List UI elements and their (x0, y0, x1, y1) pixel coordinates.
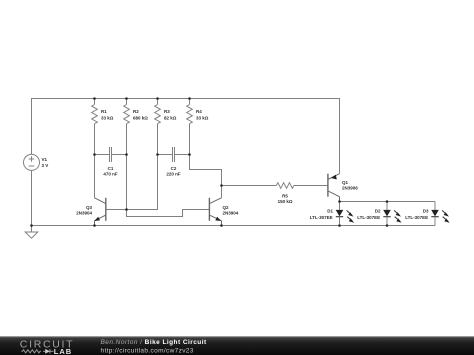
svg-text:LTL-307EE: LTL-307EE (310, 215, 333, 220)
svg-text:Q3: Q3 (86, 205, 93, 210)
junction node D2 cathode (386, 224, 389, 227)
junction node C2 right / R4 (188, 153, 191, 156)
svg-text:C2: C2 (171, 166, 177, 171)
wire top rail (32, 99, 340, 174)
svg-text:150 kΩ: 150 kΩ (278, 199, 293, 204)
svg-text:R3: R3 (164, 109, 170, 114)
junction node D2 anode (386, 200, 389, 203)
svg-text:D1: D1 (327, 209, 333, 214)
svg-text:Q1: Q1 (342, 180, 349, 185)
LED D2 (383, 202, 401, 226)
junction node R1 top rail (93, 97, 96, 100)
svg-text:R5: R5 (282, 193, 288, 198)
junction node Q2 collector / R5 (220, 184, 223, 187)
junction node R4 top rail (188, 97, 191, 100)
LED D1 (336, 202, 354, 226)
ground (25, 226, 38, 239)
svg-text:D3: D3 (423, 209, 429, 214)
svg-text:33 kΩ: 33 kΩ (101, 116, 114, 121)
svg-text:470 nF: 470 nF (103, 172, 118, 177)
junction node Q3 emitter (93, 224, 96, 227)
svg-text:3 V: 3 V (42, 163, 49, 168)
logo zigzag (21, 349, 53, 354)
resistor R4 (187, 99, 193, 155)
svg-text:Ben.Norton / Bike Light Circui: Ben.Norton / Bike Light Circuit (101, 339, 207, 346)
wire R1 node to Q3 collector (94, 155, 96, 198)
svg-text:220 nF: 220 nF (166, 172, 181, 177)
junction node D1 anode / Q1 collector (338, 200, 341, 203)
svg-text:82 kΩ: 82 kΩ (164, 116, 177, 121)
junction node C2 left / R3 (156, 153, 159, 156)
capacitor C1 (95, 147, 127, 162)
transistor Q2 (209, 198, 221, 226)
svg-text:33 kΩ: 33 kΩ (196, 116, 209, 121)
resistor R5 (276, 183, 328, 189)
svg-text:http://circuitlab.com/cw7zv23: http://circuitlab.com/cw7zv23 (101, 347, 194, 354)
wire bottom rail (32, 225, 436, 227)
junction node C1 right / R2 (125, 153, 128, 156)
LED D3 (431, 202, 449, 226)
junction node ground rail (30, 224, 33, 227)
svg-text:2N3906: 2N3906 (342, 186, 358, 191)
junction node R2 top rail (125, 97, 128, 100)
resistor R1 (92, 99, 98, 155)
junction node Q2 emitter (220, 224, 223, 227)
capacitor C2 (158, 147, 190, 162)
voltage source V1 (24, 154, 40, 170)
logo diode (45, 349, 50, 354)
junction node D1 cathode (338, 224, 341, 227)
svg-text:D2: D2 (375, 209, 381, 214)
svg-text:2N3904: 2N3904 (223, 210, 239, 215)
transistor Q1 (328, 174, 340, 202)
svg-text:LTL-307EE: LTL-307EE (405, 215, 428, 220)
svg-text:R4: R4 (196, 109, 202, 114)
svg-text:LTL-307EE: LTL-307EE (357, 215, 380, 220)
wire LED top rail (340, 201, 436, 203)
junction node C1 left / Q3 collector (93, 153, 96, 156)
transistor Q3 (95, 198, 106, 226)
svg-text:2N3904: 2N3904 (76, 210, 92, 215)
wire R4 node down and over (190, 155, 222, 186)
wire R3 node to Q3 base (106, 155, 158, 210)
svg-text:V1: V1 (42, 157, 48, 162)
resistor R2 (124, 99, 130, 155)
svg-text:Q2: Q2 (223, 205, 230, 210)
junction node Q3 base crossing (125, 208, 128, 211)
svg-text:LAB: LAB (54, 347, 72, 355)
svg-text:C1: C1 (108, 166, 114, 171)
svg-text:680 kΩ: 680 kΩ (133, 116, 148, 121)
svg-text:R2: R2 (133, 109, 139, 114)
wire junction to R5 (222, 185, 277, 187)
svg-text:R1: R1 (101, 109, 107, 114)
wire V1 bottom lead (31, 170, 33, 225)
wire junction to Q2 collector (221, 186, 223, 198)
resistor R3 (155, 99, 161, 155)
junction node R3 top rail (156, 97, 159, 100)
wire R2 node to Q2 base (jog under) (127, 155, 210, 217)
